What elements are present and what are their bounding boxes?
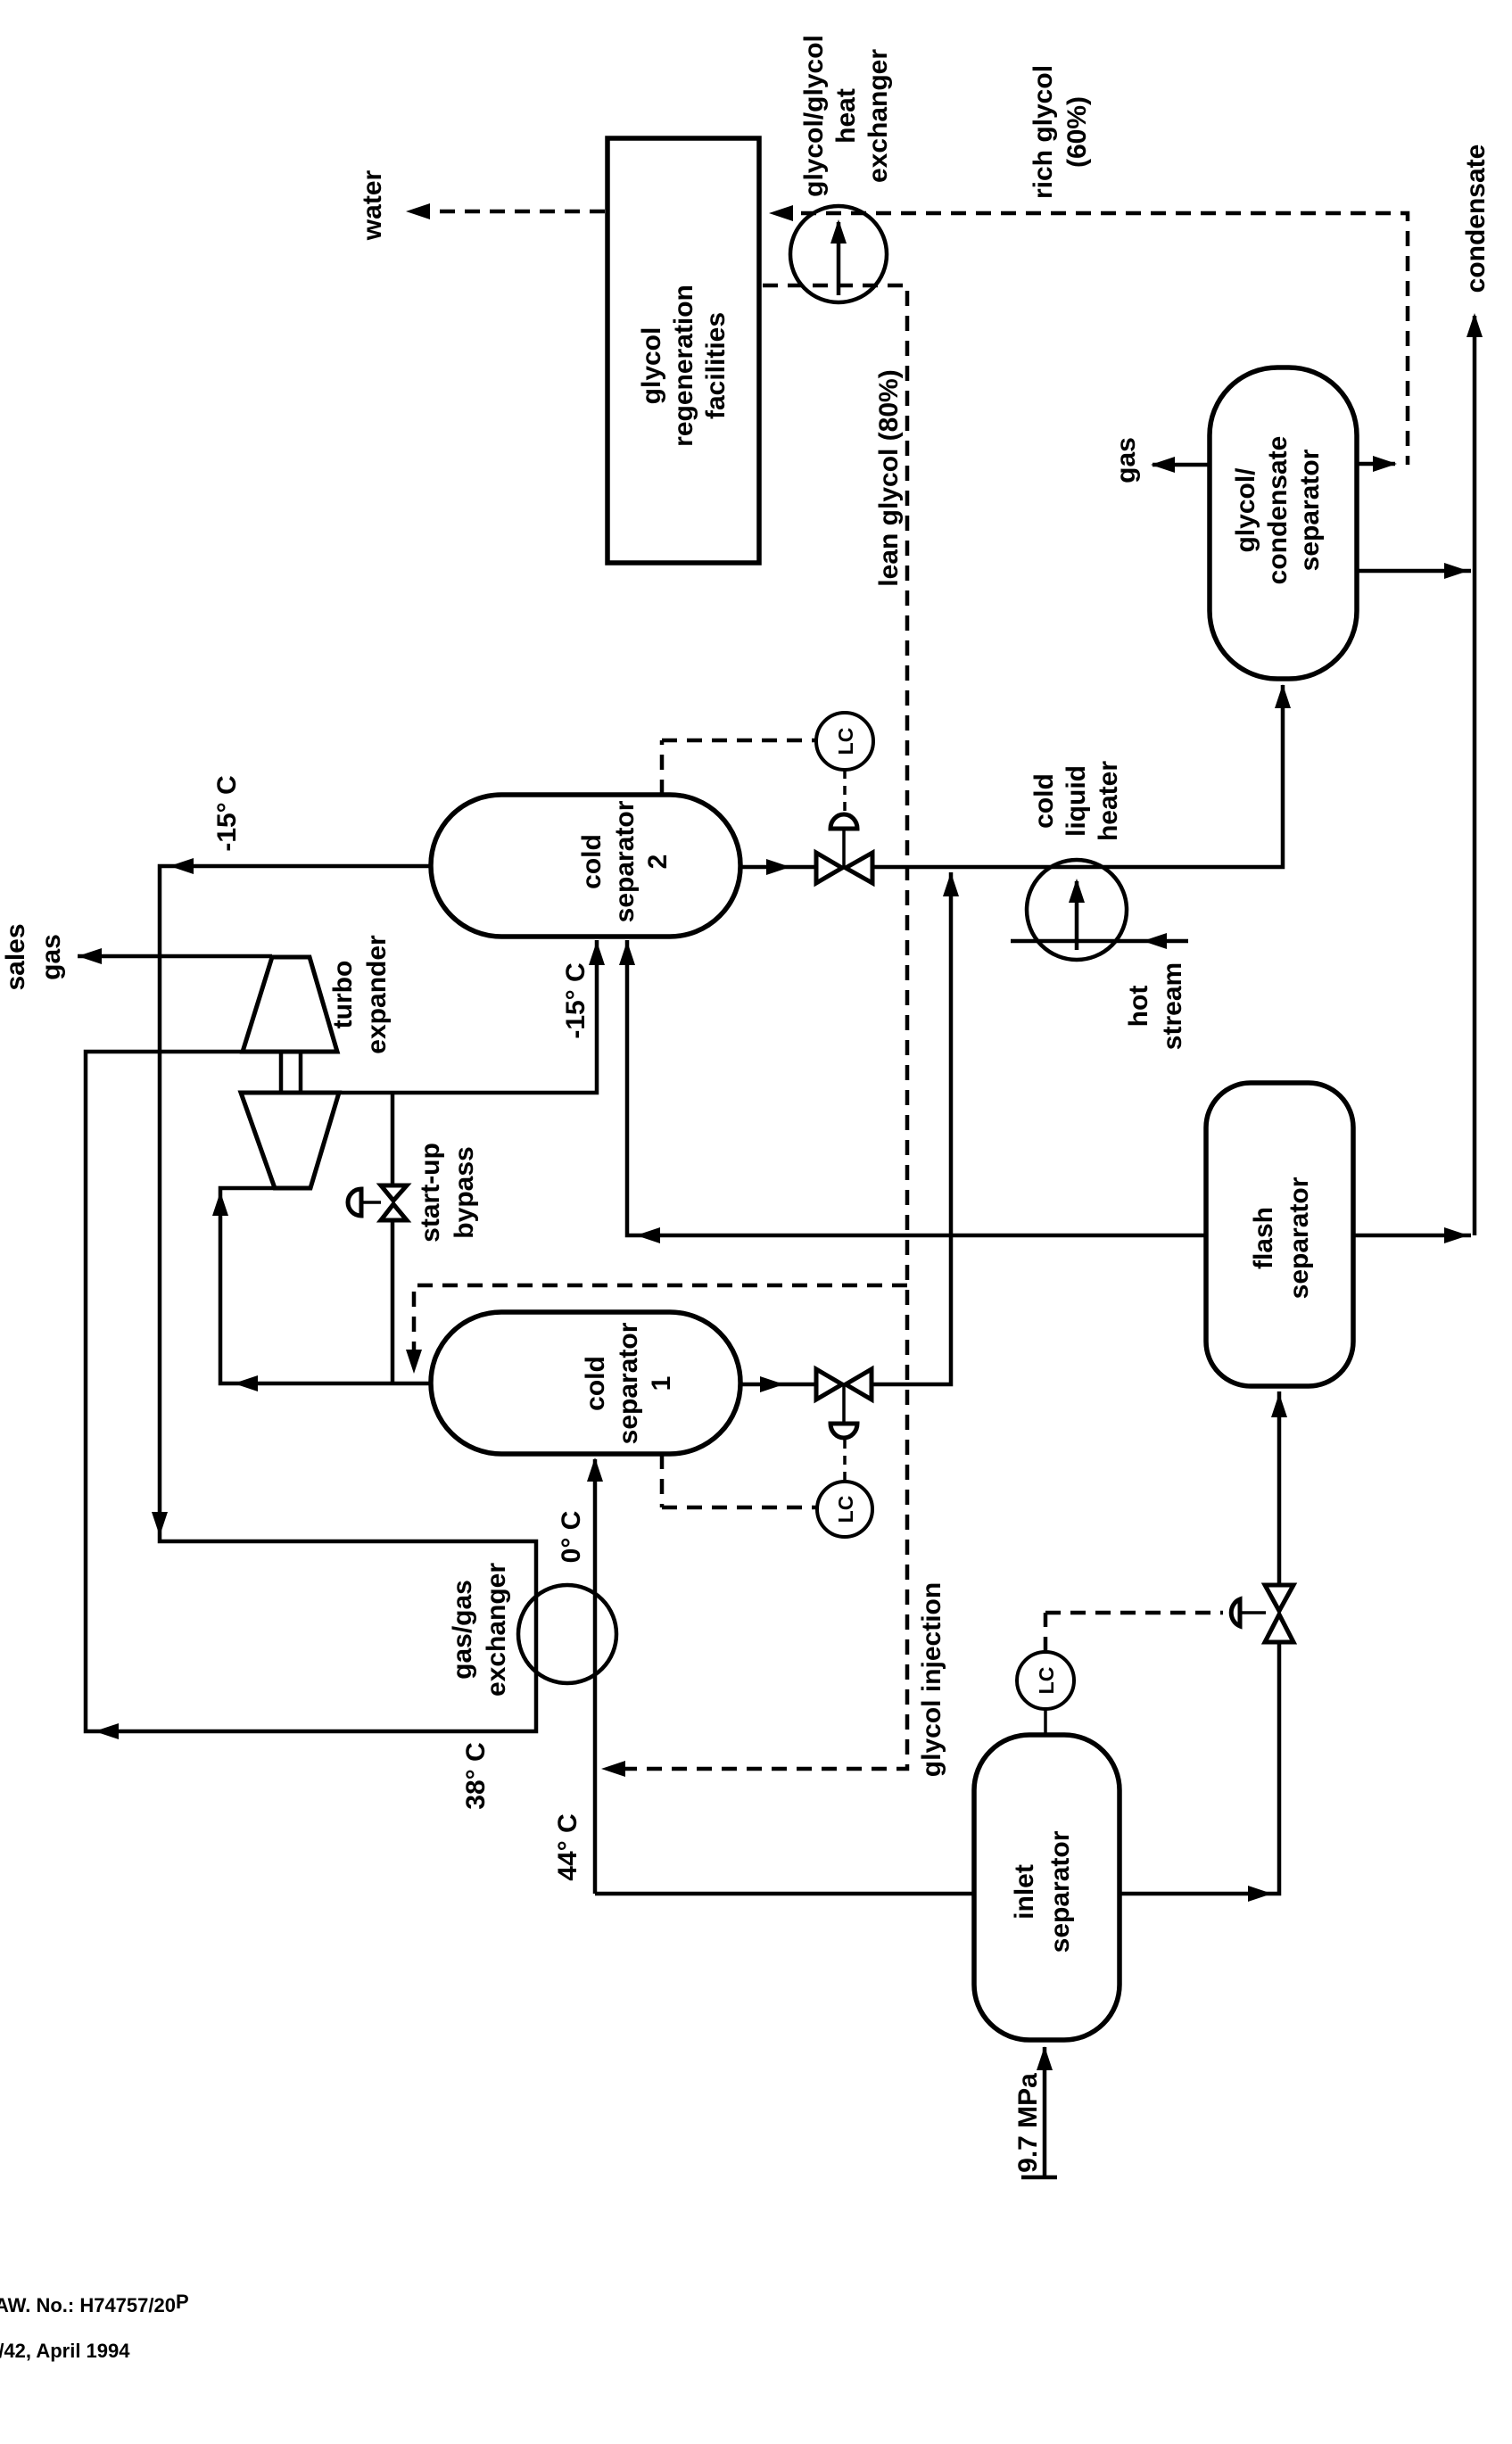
- svg-text:glycol injection: glycol injection: [917, 1582, 946, 1777]
- svg-text:-15° C: -15° C: [212, 775, 242, 851]
- svg-text:-15° C: -15° C: [561, 962, 591, 1038]
- svg-text:AW. No.: H74757/20P: AW. No.: H74757/20P: [0, 2291, 189, 2316]
- svg-text:LC: LC: [1035, 1667, 1058, 1695]
- svg-text:LC: LC: [834, 728, 857, 755]
- svg-text:gas: gas: [1111, 437, 1141, 483]
- svg-text:38° C: 38° C: [461, 1742, 491, 1809]
- svg-text:LC: LC: [834, 1496, 857, 1523]
- svg-text:lean glycol (80%): lean glycol (80%): [874, 369, 904, 586]
- svg-text:0° C: 0° C: [557, 1511, 586, 1564]
- svg-text:)/42, April 1994: )/42, April 1994: [0, 2340, 130, 2362]
- svg-text:water: water: [358, 169, 387, 241]
- svg-text:condensate: condensate: [1461, 144, 1491, 293]
- svg-text:9.7 MPa: 9.7 MPa: [1013, 2073, 1043, 2173]
- svg-text:44° C: 44° C: [553, 1813, 582, 1880]
